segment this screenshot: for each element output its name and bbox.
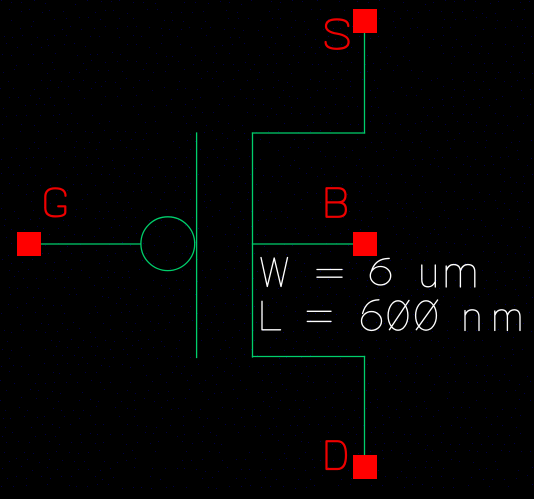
pin square B — [353, 232, 377, 256]
pin label D — [327, 441, 347, 469]
wire B horizontal — [253, 243, 354, 245]
bubble (PMOS gate circle) — [141, 217, 195, 271]
pin square S — [353, 9, 377, 33]
channel bar — [252, 133, 254, 357]
pin label S — [326, 19, 349, 48]
wire S vertical — [364, 33, 366, 133]
pin square G — [17, 232, 41, 256]
value label L = 600 nm (line 2) — [262, 300, 520, 331]
value label W = 6 um (line 1) — [261, 258, 475, 288]
wire drain lead horizontal — [253, 356, 365, 358]
pin square D — [353, 455, 377, 479]
wire source lead horizontal — [253, 132, 365, 134]
wire G horizontal — [41, 243, 141, 245]
pin label B — [327, 188, 346, 217]
pin label G — [45, 188, 65, 216]
wire D vertical — [364, 357, 366, 456]
gate line — [196, 133, 198, 358]
